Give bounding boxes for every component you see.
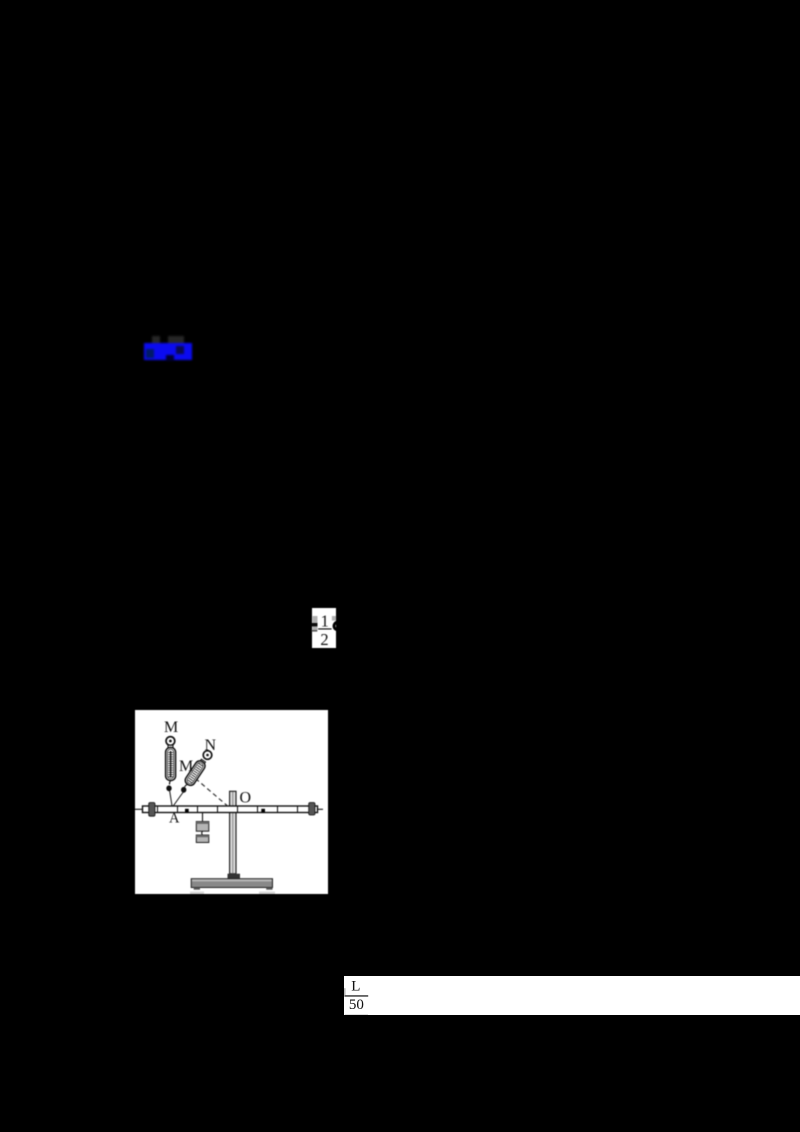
svg-text:M: M bbox=[164, 719, 178, 736]
svg-text:L: L bbox=[351, 978, 360, 994]
svg-text:M: M bbox=[179, 758, 193, 775]
svg-text:50: 50 bbox=[349, 996, 364, 1012]
svg-text:O: O bbox=[240, 790, 252, 807]
svg-text:A: A bbox=[169, 811, 180, 827]
svg-text:2: 2 bbox=[320, 630, 328, 649]
svg-text:1: 1 bbox=[321, 611, 329, 630]
